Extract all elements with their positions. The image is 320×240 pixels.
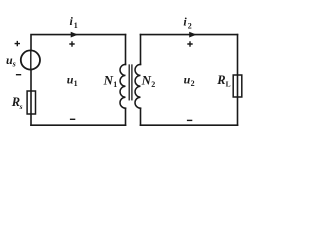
resistor Rs (27, 91, 35, 114)
wire top left loop (31, 35, 126, 51)
arrow current i2 (190, 32, 196, 37)
transformer core line 2 (131, 65, 133, 100)
voltage source us circle (21, 50, 40, 69)
svg-text:s: s (19, 102, 23, 111)
wire coil N1 lead bottom (125, 108, 127, 125)
minus sign source us (16, 74, 21, 76)
plus sign u1 (69, 41, 74, 46)
svg-text:L: L (226, 80, 231, 89)
inductor coil N2 (135, 64, 141, 108)
wire top right loop (141, 34, 238, 36)
svg-text:R: R (216, 73, 225, 87)
wire coil N2 lead bottom (140, 108, 142, 125)
wire left loop bottom (31, 124, 126, 126)
svg-text:N: N (103, 73, 114, 88)
svg-text:2: 2 (188, 21, 192, 30)
svg-text:s: s (12, 60, 16, 69)
svg-text:2: 2 (191, 79, 195, 88)
svg-text:N: N (141, 73, 152, 88)
voltage source internal line (30, 51, 32, 70)
plus sign source us (15, 41, 20, 46)
resistor RL (233, 75, 242, 97)
plus sign u2 (187, 41, 192, 46)
svg-text:1: 1 (74, 79, 78, 88)
svg-text:u: u (184, 73, 191, 87)
inductor coil N1 (120, 64, 126, 108)
wire coil N2 lead top (140, 35, 142, 65)
minus sign u2 (187, 119, 192, 121)
wire right loop right side (237, 35, 239, 126)
svg-text:2: 2 (151, 80, 155, 89)
wire right loop bottom (141, 124, 238, 126)
wire left loop left bottom (source to resistor) (30, 70, 32, 126)
transformer core line 1 (128, 65, 130, 100)
arrow current i1 (71, 32, 77, 37)
wire left loop right side (coil lead top) (125, 35, 127, 65)
minus sign u1 (70, 118, 75, 120)
svg-text:1: 1 (74, 21, 78, 30)
svg-text:1: 1 (113, 80, 117, 89)
